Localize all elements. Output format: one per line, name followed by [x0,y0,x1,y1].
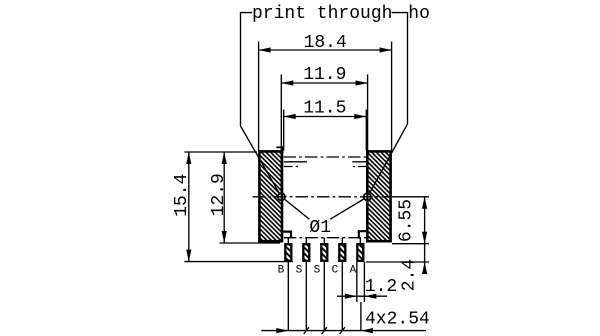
pin S3 [321,244,327,261]
svg-text:2.4: 2.4 [400,259,420,291]
svg-text:11.9: 11.9 [303,65,346,85]
centerline main through holes [253,196,392,198]
svg-text:S: S [296,265,303,277]
pin labels B S S C A [278,265,357,277]
centerline pins [284,237,366,239]
label: print through-ho text [252,4,430,24]
dimension 12.9 [209,152,229,243]
hole left [278,193,285,200]
short centerline right [353,166,366,168]
svg-text:C: C [332,265,339,277]
step left wall bottom inner [283,232,292,239]
hole right ring redraw [364,193,371,200]
svg-text:4x2.54: 4x2.54 [365,310,430,330]
dimension 18.4 [259,33,392,53]
dimension 11.9 [281,65,367,85]
svg-text:11.5: 11.5 [303,99,346,119]
svg-text:A: A [350,265,357,277]
dimension 6.55 [396,197,427,274]
svg-text:print through: print through [252,4,392,24]
svg-text:12.9: 12.9 [209,173,229,216]
dimension 1.2 [337,277,397,299]
dimension 11.5 [284,99,367,120]
pin A [357,244,363,261]
leader right (to right hole) [369,13,407,194]
centerline upper cavity [284,156,367,158]
leader left (to left hole) [241,13,280,194]
ledge line left [284,161,307,163]
hole right [364,193,371,200]
dimension 15.4 [172,152,192,262]
svg-text:B: B [278,265,285,277]
extension line 15.4 bottom [184,261,293,263]
extension line top left (15.4/12.9 top) [184,151,257,153]
wall left (hatched housing section) [259,151,282,241]
svg-text:1.2: 1.2 [365,277,397,297]
dimension 2.4 [400,259,428,291]
extension line 2.4 bottom [366,261,429,263]
lip on left wall inner top [276,147,283,154]
extension lines dim 11.9 [281,75,367,202]
pin S2 [303,244,309,261]
extension lines 1.2 [357,262,365,302]
extension line 6.55 bottom / 2.4 top [392,243,429,245]
wall inner edge over left hole [281,192,283,201]
svg-text:18.4: 18.4 [304,33,347,53]
hole left ring redraw [278,193,285,200]
label Ø1 with leaders [284,199,365,239]
ledge line right [352,161,366,163]
extension lines dim 18.4 [259,42,392,151]
svg-text:Ø1: Ø1 [309,218,331,238]
pin stubs up [288,238,360,244]
wall inner edge over right hole [366,192,368,201]
svg-text:S: S [314,265,321,277]
step right wall bottom inner [359,231,367,238]
extension lines dim 11.5 [284,110,367,151]
extension line 12.9 bottom [220,242,281,244]
svg-text:ho: ho [408,4,430,24]
extension line 6.55 top [392,196,429,198]
short centerline left [284,166,298,168]
wall right (hatched housing section) [367,151,390,241]
svg-text:15.4: 15.4 [172,174,192,217]
svg-text:6.55: 6.55 [396,199,416,242]
pin lead lines down [288,261,361,331]
dimension 4x2.54 [261,310,430,334]
pin B [285,244,291,261]
pin C [339,244,345,261]
